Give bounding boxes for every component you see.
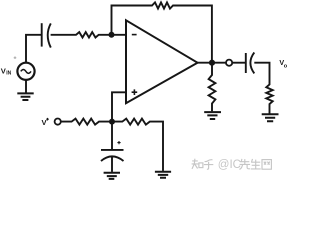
svg-text:o: o [284, 63, 288, 69]
svg-text:IN: IN [6, 71, 11, 77]
svg-text:@IC: @IC [218, 159, 241, 171]
